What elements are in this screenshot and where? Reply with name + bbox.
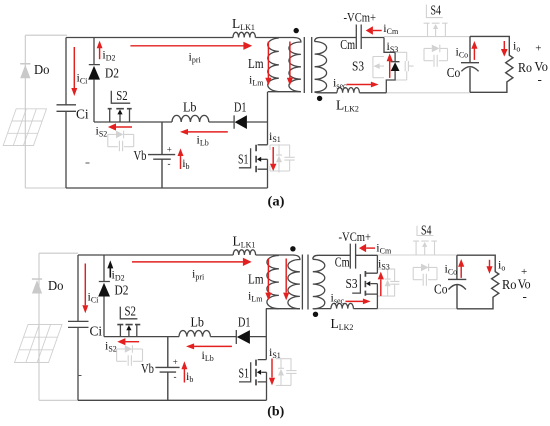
- svg-text:Cm: Cm: [335, 255, 350, 270]
- svg-text:-VCm+: -VCm+: [344, 11, 377, 25]
- svg-text:iCi: iCi: [77, 71, 89, 86]
- svg-text:iLb: iLb: [202, 348, 214, 363]
- svg-text:-: -: [538, 72, 542, 87]
- svg-text:iS1: iS1: [269, 129, 281, 144]
- svg-text:LLK2: LLK2: [336, 98, 359, 114]
- svg-text:-: -: [168, 159, 171, 169]
- svg-text:Lb: Lb: [183, 100, 197, 115]
- svg-text:iS3: iS3: [387, 39, 399, 54]
- svg-text:-: -: [523, 289, 527, 304]
- svg-text:iLm: iLm: [249, 73, 264, 88]
- svg-text:iLb: iLb: [197, 133, 209, 148]
- svg-text:D2: D2: [105, 65, 119, 80]
- svg-text:(b): (b): [267, 404, 284, 419]
- svg-text:Co: Co: [447, 65, 461, 80]
- svg-text:iCm: iCm: [376, 241, 392, 256]
- svg-text:LLK2: LLK2: [331, 316, 354, 332]
- svg-text:S1: S1: [239, 366, 250, 381]
- svg-text:S3: S3: [346, 276, 358, 291]
- svg-text:D2: D2: [115, 282, 129, 297]
- svg-text:ib: ib: [182, 156, 189, 171]
- svg-text:+: +: [173, 357, 178, 367]
- svg-text:(a): (a): [268, 194, 285, 209]
- svg-text:Do: Do: [48, 278, 64, 293]
- svg-text:iS3: iS3: [378, 257, 390, 272]
- svg-text:iS1: iS1: [269, 345, 281, 360]
- svg-text:S4: S4: [431, 3, 442, 18]
- svg-text:iS2: iS2: [96, 124, 108, 139]
- svg-text:iCi: iCi: [88, 290, 100, 305]
- svg-text:io: io: [498, 258, 505, 273]
- svg-text:S1: S1: [238, 152, 249, 167]
- svg-text:LLK1: LLK1: [233, 234, 256, 250]
- svg-text:isec: isec: [331, 291, 345, 306]
- svg-text:S2: S2: [125, 304, 137, 319]
- svg-text:+: +: [167, 144, 172, 154]
- svg-text:Vb: Vb: [134, 148, 147, 163]
- svg-text:iLm: iLm: [248, 289, 263, 304]
- svg-text:Ro: Ro: [502, 277, 517, 292]
- svg-text:Ro: Ro: [518, 60, 532, 75]
- svg-text:Ci: Ci: [90, 324, 103, 339]
- svg-text:S3: S3: [352, 59, 364, 74]
- svg-text:iS2: iS2: [105, 339, 117, 354]
- svg-text:Co: Co: [434, 282, 448, 297]
- svg-text:Lm: Lm: [248, 272, 264, 287]
- svg-text:ipri: ipri: [192, 267, 205, 282]
- svg-text:iCo: iCo: [456, 45, 469, 60]
- svg-text:D1: D1: [238, 315, 251, 330]
- svg-text:Ci: Ci: [76, 107, 89, 122]
- svg-text:iCm: iCm: [383, 21, 399, 36]
- svg-text:Lm: Lm: [248, 56, 264, 71]
- svg-text:ib: ib: [186, 369, 193, 384]
- svg-text:ipri: ipri: [189, 50, 202, 65]
- svg-text:iCo: iCo: [445, 262, 458, 277]
- svg-text:Vb: Vb: [141, 361, 154, 376]
- svg-text:S4: S4: [421, 223, 432, 238]
- svg-text:Lb: Lb: [191, 315, 205, 330]
- svg-text:+: +: [521, 266, 527, 278]
- svg-text:iD2: iD2: [102, 48, 115, 63]
- svg-text:LLK1: LLK1: [232, 16, 255, 32]
- svg-text:-: -: [174, 372, 177, 382]
- svg-text:-VCm+: -VCm+: [339, 230, 372, 244]
- svg-text:Do: Do: [34, 62, 50, 77]
- svg-text:isec: isec: [333, 76, 347, 91]
- svg-text:io: io: [513, 39, 520, 54]
- svg-text:S2: S2: [116, 88, 127, 103]
- svg-text:+: +: [535, 43, 541, 55]
- svg-text:iD2: iD2: [112, 268, 125, 283]
- svg-text:D1: D1: [234, 100, 247, 115]
- svg-text:Cm: Cm: [340, 37, 355, 52]
